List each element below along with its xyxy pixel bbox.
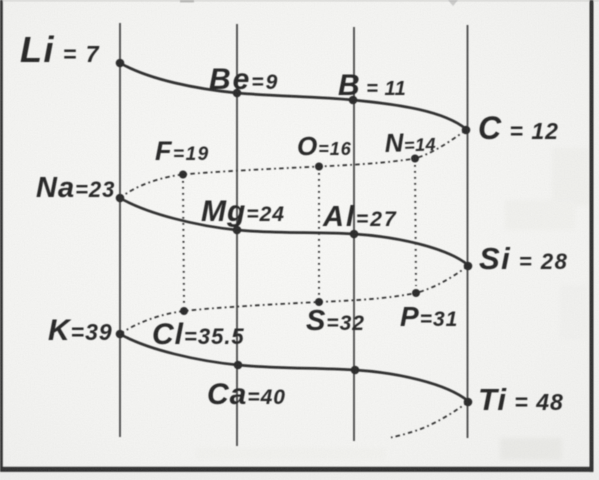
node Mg bbox=[233, 226, 242, 235]
strip below frame bbox=[0, 472, 599, 480]
ghost bleed-through marks bbox=[196, 148, 590, 460]
node Ti bbox=[464, 398, 473, 407]
node B bbox=[349, 96, 358, 105]
node unlabeled (Sc position) bbox=[351, 366, 360, 375]
node Li bbox=[116, 59, 125, 68]
node N bbox=[411, 155, 419, 163]
node O bbox=[315, 163, 323, 171]
solid curve K-Ca-Ti bbox=[120, 334, 468, 401]
node P bbox=[412, 289, 420, 297]
node F bbox=[179, 171, 187, 179]
generator line 3 (x=354) bbox=[353, 27, 355, 441]
generator line 1 (x=120) bbox=[119, 23, 121, 437]
scan mark top nub 1 bbox=[180, 0, 194, 3]
solid curve Na-Mg-Al-Si bbox=[120, 198, 468, 265]
dotted group line O-S bbox=[318, 173, 320, 295]
node Cl bbox=[180, 307, 188, 315]
frame top edge (faint) bbox=[0, 0, 599, 2]
node Be bbox=[233, 89, 242, 98]
node Al bbox=[350, 230, 359, 239]
frame left border bbox=[0, 0, 3, 472]
frame bottom border bbox=[0, 467, 594, 472]
node Na bbox=[116, 194, 125, 203]
scan mark top nub 2 bbox=[448, 0, 458, 6]
dotted group line F-Cl bbox=[183, 181, 184, 304]
dashed back curve Si-P-S-Cl-K bbox=[120, 266, 468, 334]
dotted group line N-P bbox=[415, 165, 416, 286]
node S bbox=[315, 298, 323, 306]
node C bbox=[462, 126, 471, 135]
solid curve Li-Be-B-C bbox=[120, 63, 466, 129]
generator line 4 (x=467.5) bbox=[467, 25, 469, 438]
dashed back curve C-N-O-F-Na bbox=[120, 130, 466, 198]
node Si bbox=[464, 262, 473, 271]
frame right border bbox=[590, 0, 594, 473]
node K bbox=[116, 330, 125, 339]
node Ca bbox=[234, 361, 243, 370]
generator line 2 (x=237) bbox=[236, 24, 238, 446]
dashed back curve after Ti bbox=[391, 402, 468, 438]
